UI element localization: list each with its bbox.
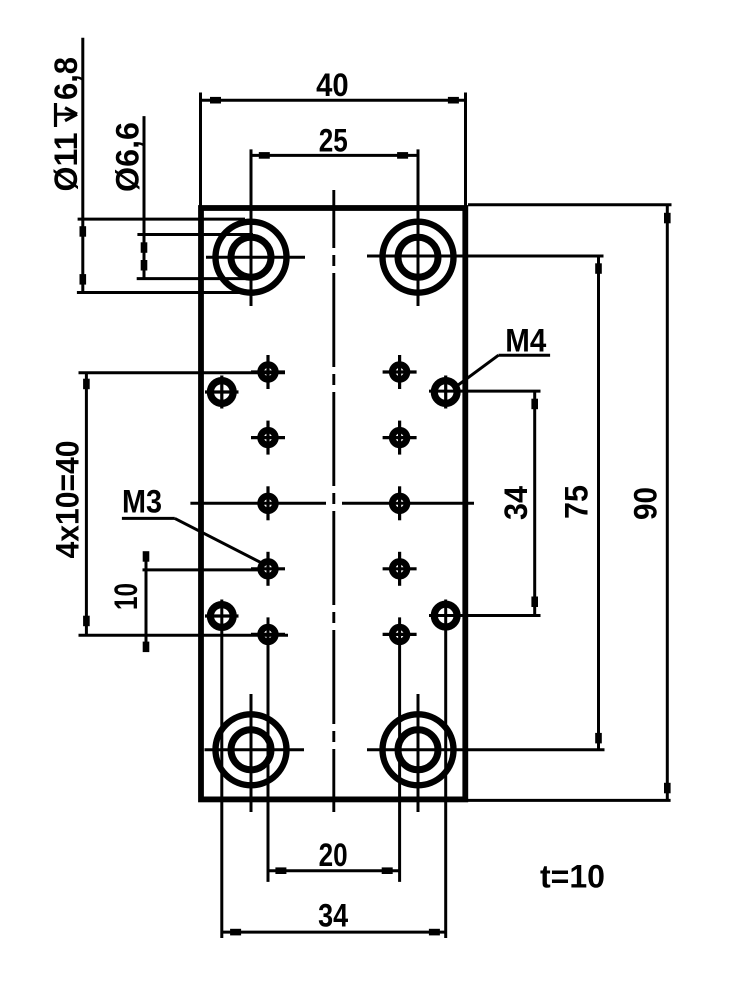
svg-text:Ø6,6: Ø6,6	[110, 122, 146, 192]
label M3 with leader	[122, 518, 266, 565]
dimension line Ø11 depth 6.8	[77, 38, 249, 293]
svg-text:M4: M4	[505, 323, 546, 359]
svg-text:90: 90	[628, 487, 664, 520]
label 34 right (rotated)	[498, 486, 534, 520]
M4 hole right-top	[429, 376, 541, 409]
label 75 (rotated)	[559, 485, 595, 519]
svg-text:20: 20	[319, 837, 348, 873]
M4 hole left-top	[205, 376, 239, 409]
M3 holes right column	[383, 355, 417, 882]
M3 holes left column	[251, 355, 285, 882]
counterbore hole bottom-right	[367, 694, 605, 812]
label Ø6,6 (rotated)	[110, 122, 146, 192]
M4 hole right-bottom	[429, 600, 541, 939]
counterbore hole top-right	[367, 149, 604, 306]
dimension 75 right	[595, 255, 602, 749]
counterbore hole bottom-left	[205, 694, 305, 812]
svg-text:Ø11: Ø11	[48, 133, 84, 192]
svg-text:M3: M3	[122, 484, 162, 520]
label 4x10=40 (rotated)	[50, 441, 86, 559]
svg-text:75: 75	[559, 485, 595, 519]
dimension 4x10=40 left	[79, 373, 289, 635]
label 90 (rotated)	[628, 487, 664, 520]
dimension 34 bottom	[221, 929, 445, 936]
label M4 with leader	[458, 355, 551, 385]
label Ø11 depth 6,8 (rotated)	[48, 57, 84, 192]
label 10 (rotated)	[108, 583, 144, 610]
horizontal mid-row centerline	[190, 502, 326, 505]
dimension 10 left	[143, 551, 260, 652]
counterbore hole top-left	[206, 149, 305, 306]
dimension 20 bottom	[268, 867, 401, 874]
svg-text:4x10=40: 4x10=40	[50, 441, 86, 559]
plate outline	[201, 208, 465, 799]
dimension line Ø6.6	[137, 116, 253, 279]
dimension 40 top	[201, 93, 466, 207]
vertical centerline	[332, 190, 335, 812]
svg-text:25: 25	[319, 122, 348, 158]
M4 hole left-bottom	[205, 600, 239, 939]
svg-text:40: 40	[316, 67, 349, 103]
svg-text:34: 34	[498, 486, 534, 520]
dimension 25 top	[250, 152, 419, 159]
svg-text:t=10: t=10	[540, 859, 605, 895]
svg-text:10: 10	[108, 583, 144, 610]
dimension 90 right	[468, 205, 672, 801]
svg-text:6,8: 6,8	[48, 57, 84, 100]
svg-text:34: 34	[318, 898, 348, 934]
dimension 34 right	[531, 391, 538, 615]
